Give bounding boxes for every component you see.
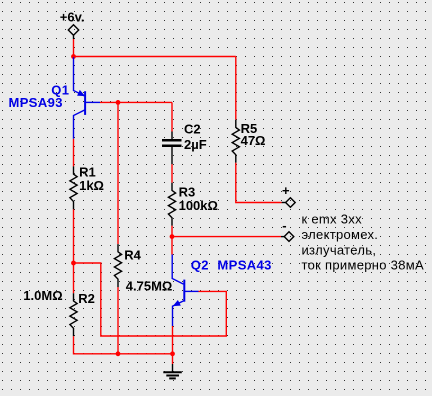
junction ground rail [170, 351, 175, 356]
svg-text:ток примерно 38мА: ток примерно 38мА [302, 258, 424, 273]
resistor R3 [168, 183, 175, 226]
transistor Q1 MPSA93 (PNP) [74, 57, 101, 139]
transistor Q2 MPSA43 (NPN, mirrored) [172, 255, 198, 327]
connector diamond plus [282, 198, 296, 208]
svg-text:R2: R2 [78, 291, 95, 306]
svg-text:излучатель,: излучатель, [302, 242, 377, 257]
svg-text:2µF: 2µF [184, 137, 207, 152]
wire R5 bottom to plus connector [236, 163, 282, 203]
svg-text:MPSA43: MPSA43 [217, 258, 271, 273]
wire R5 top lead [235, 57, 237, 120]
svg-text:+: + [282, 183, 290, 198]
svg-text:100kΩ: 100kΩ [179, 198, 218, 213]
svg-text:1.0MΩ: 1.0MΩ [23, 288, 62, 303]
wire junction to R2 [73, 263, 75, 293]
Q2 emitter lead [173, 301, 185, 327]
svg-text:электромех.: электромех. [302, 227, 379, 242]
capacitor C2 [162, 132, 182, 165]
wire base loop to Q2 [74, 263, 227, 336]
junction at +6v rail [71, 54, 76, 59]
junction at Q1 base / R4 [116, 100, 121, 105]
svg-text:+6v.: +6v. [60, 10, 85, 25]
svg-text:Q2: Q2 [191, 258, 209, 273]
resistor R1 [70, 166, 77, 209]
resistor R4 [114, 244, 121, 287]
wire R3 bottom to Q2 collector [171, 226, 173, 255]
Q1 emitter arrow [78, 91, 85, 96]
connector diamond minus [281, 232, 294, 242]
wire R1 bottom to junction [73, 209, 75, 263]
svg-text:MPSA93: MPSA93 [9, 95, 63, 110]
wire R2 bottom to ground rail [74, 336, 173, 354]
power terminal +6v diamond [68, 25, 78, 39]
svg-text:к emx 3xx: к emx 3xx [302, 212, 363, 227]
resistor R5 [232, 120, 239, 163]
junction R3 / connector [170, 234, 175, 239]
svg-text:-: - [282, 218, 286, 233]
wire from +6v terminal to top rail [73, 39, 75, 57]
Q2 emitter arrow [174, 301, 181, 306]
resistor R2 [70, 293, 77, 336]
svg-text:R4: R4 [124, 247, 141, 262]
Q1 emitter lead [74, 57, 85, 96]
Q1 collector lead [74, 110, 86, 139]
Q2 collector lead [172, 255, 183, 285]
svg-text:C2: C2 [184, 121, 201, 136]
Q2 bar [183, 280, 185, 302]
wire R4 bottom lead [117, 287, 119, 354]
Q2 base lead [184, 290, 198, 292]
wire C2 to R3 [171, 164, 173, 182]
Q1 base lead [85, 101, 100, 103]
svg-text:1kΩ: 1kΩ [79, 178, 104, 193]
wire top rail [74, 56, 236, 58]
junction R4 / rail [116, 351, 121, 356]
wire to minus connector [172, 236, 281, 238]
wire C2 top lead [171, 102, 173, 131]
ground [163, 364, 182, 378]
wire Q1 base to C2 column [100, 101, 172, 103]
svg-text:47Ω: 47Ω [241, 133, 266, 148]
Q1 bar [84, 91, 86, 115]
junction R1/R2/base loop [71, 261, 76, 266]
wire R4 top lead [117, 102, 119, 244]
wire Q2 emitter down [172, 326, 174, 364]
wire R1 top lead (Q1 collector) [73, 139, 75, 167]
svg-text:4.75MΩ: 4.75MΩ [126, 279, 173, 294]
